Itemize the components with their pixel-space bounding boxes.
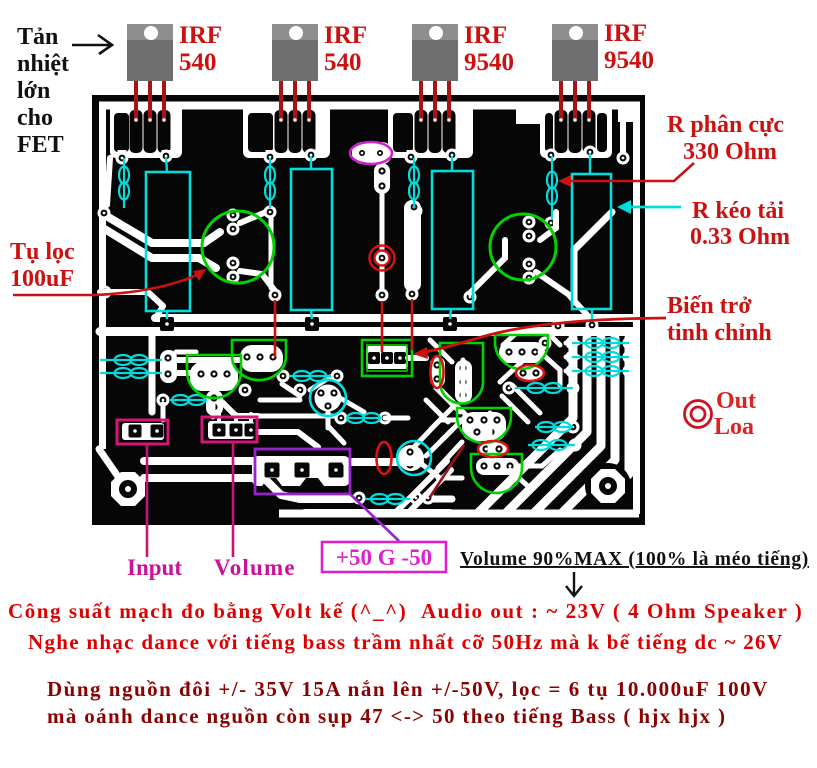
svg-text:IRF: IRF: [179, 22, 222, 49]
pad border via 2: [99, 286, 112, 299]
wire: cluster diag 2: [442, 416, 466, 440]
pin slot for leg at x=150: [144, 110, 157, 153]
wire: maze low link: [419, 462, 462, 478]
svg-text:R phân cực: R phân cực: [667, 112, 784, 138]
wire W2 (red jumper line): [381, 301, 384, 352]
wire: row y352: [176, 350, 196, 355]
wire: maze t4: [500, 356, 528, 382]
pad x3: [294, 384, 307, 397]
pad R3 bus: [443, 317, 457, 331]
pad bar bottom: [406, 288, 419, 301]
wire: stub to pad G2b: [307, 150, 316, 155]
svg-text:Công suất mạch đo bằng Volt kế: Công suất mạch đo bằng Volt kế (^_^) Aud…: [8, 599, 803, 623]
wire: trio feed 2: [566, 355, 578, 360]
connector input footprint: [122, 423, 164, 440]
pad ctr3: [376, 289, 389, 302]
wire: cyan stub R1 top: [166, 157, 167, 172]
transistor Q2 IRF540 body: [272, 24, 318, 81]
pad C1-4: [227, 271, 240, 284]
wire: output trace 2: [506, 338, 587, 513]
pad bt2: [410, 492, 423, 505]
wire: maze t1: [461, 360, 466, 400]
svg-text:mà oánh dance nguồn còn sụp 47: mà oánh dance nguồn còn sụp 47 <-> 50 th…: [47, 704, 726, 728]
pad IN-2: [151, 425, 164, 438]
wire: volume90 down arrow: [566, 572, 582, 596]
wire: maze low 2: [510, 470, 530, 488]
pin slot for leg at x=281: [275, 110, 288, 153]
pin slot for leg at x=164: [158, 110, 171, 153]
pad z2: [374, 147, 386, 159]
wire: volume stub 1: [217, 414, 221, 424]
jumper JL3 (cyan link): [409, 158, 419, 208]
bias via target (red rings): [370, 246, 395, 271]
pad J2 bot: [269, 289, 282, 302]
mount hole bottom-right: [585, 463, 631, 509]
wire: board outline ground trace right: [633, 102, 640, 514]
wire: stub to bus start: [157, 306, 163, 316]
pad R4 bus: [586, 319, 599, 332]
ground pour island over Q1 pins: [110, 102, 182, 158]
transistor D3 (green outline): [495, 335, 548, 369]
pad trio-r354: [623, 351, 636, 364]
pad G2a: [264, 151, 277, 164]
svg-text:Volume 90%MAX (100% là méo tiế: Volume 90%MAX (100% là méo tiếng): [460, 549, 809, 570]
wire: bottom mid rail: [305, 509, 450, 517]
footprint Q11: [476, 458, 519, 475]
wire: power box leader (purple): [350, 494, 399, 541]
jumper JH4 (cyan link): [289, 371, 331, 381]
wire: trio feed 3: [566, 369, 578, 374]
power label box: [322, 542, 446, 572]
pad jd-l: [335, 412, 348, 425]
wire: left border to mount hole: [99, 449, 119, 478]
wire: Tu loc leader arrow (red): [13, 269, 206, 295]
wire: output trace 4: [562, 338, 615, 513]
wire: cyan stub R2 top: [310, 156, 312, 169]
svg-text:lớn: lớn: [17, 78, 50, 104]
node: zener pads (magenta ellipse): [350, 142, 392, 164]
pad C1-3: [227, 257, 240, 270]
pin slot for leg at x=435: [429, 110, 442, 153]
transistor Q1 IRF540 body: [127, 24, 173, 81]
wire: trio feed 1: [566, 341, 578, 346]
wire: maze t2: [488, 413, 493, 470]
pad J3 bottom (redraw): [408, 201, 421, 214]
wire: bottom-left rail 2: [144, 478, 352, 499]
pad trio-r340: [623, 337, 636, 350]
pad jd-r: [379, 412, 392, 425]
jumper JH7 (cyan link): [572, 352, 629, 362]
capacitor C2 100uF (green circle): [490, 214, 556, 280]
wire W3 (red jumper line): [411, 299, 414, 350]
wire: under D1: [222, 402, 258, 416]
svg-text:0.33 Ohm: 0.33 Ohm: [690, 224, 790, 250]
footprint RJ left: [160, 350, 177, 383]
pad jc-l: [277, 370, 290, 383]
PCB board (black copper-clad area): [92, 95, 645, 525]
mount hole bottom-right (redraw over traces): [585, 463, 631, 509]
svg-text:9540: 9540: [464, 49, 514, 76]
wire: link to C ring: [385, 416, 408, 421]
wire: maze d2: [426, 400, 448, 422]
wire: cluster diag 3: [426, 430, 452, 456]
jumper JH8 (cyan link): [572, 366, 629, 376]
wire: cyan stub R3 bot: [450, 309, 451, 319]
wire: top jumper pour between Q3 and Q4: [516, 102, 542, 124]
pad C2-2: [523, 230, 536, 243]
wire: input stub 1: [161, 404, 166, 420]
pin slot for leg at x=449: [443, 110, 456, 153]
wire: R phan cuc leader arrow (red): [558, 163, 694, 187]
svg-text:nhiệt: nhiệt: [17, 51, 69, 77]
wire: R4 under diagonal: [574, 212, 612, 302]
pad C2-3: [523, 258, 536, 271]
wire: stub to pad G4a: [547, 150, 556, 155]
wire: connector out right: [346, 458, 420, 466]
wire: C1 to jumper: [240, 212, 266, 223]
jumper JH10 (cyan link): [535, 422, 573, 432]
pad mid via: [464, 291, 477, 304]
wire: C1 to R2 area: [240, 271, 275, 291]
svg-text:FET: FET: [17, 132, 64, 158]
svg-text:IRF: IRF: [464, 22, 507, 49]
connector J-power footprint: [252, 456, 350, 486]
transistor D2 (green outline): [232, 340, 286, 380]
pad ch2-r: [567, 421, 580, 434]
wire: cluster diag 1: [431, 405, 455, 429]
resistor R1 0.33 Ohm (cyan box): [146, 172, 190, 311]
transistor Q3 legs: [419, 80, 451, 122]
pad bt3: [422, 492, 435, 505]
wire: board outline ground trace top: [99, 102, 640, 110]
footprint zener pads blob: [352, 142, 392, 164]
wire: cyan stub R1 bot: [166, 311, 168, 319]
jumper JL4 R phan cuc (cyan link): [547, 156, 557, 220]
wire: input stub 2: [211, 404, 216, 417]
wire: top-right inner trace: [620, 106, 626, 152]
pad C2-1: [523, 216, 536, 229]
wire: volume stub 3: [249, 414, 253, 424]
footprint Q6: [240, 345, 283, 372]
wire: maze t8: [516, 450, 560, 466]
pad bias via: [376, 252, 389, 265]
svg-text:Nghe nhạc dance với tiếng bass: Nghe nhạc dance với tiếng bass trầm nhất…: [28, 630, 783, 654]
wire: row trace y360: [172, 357, 240, 363]
ground pour island over Q4 pins: [540, 102, 612, 158]
pin slot for leg at x=575: [569, 110, 582, 153]
footprint R-f: [479, 441, 507, 457]
wire: stub to pad G1b: [162, 150, 171, 156]
jumper JH3 (cyan link): [170, 395, 207, 405]
wire: stub to pad G2a: [266, 150, 275, 157]
wire: C2 lower out: [536, 272, 590, 318]
out loa pad symbol (red rings): [685, 401, 712, 428]
svg-text:Dùng nguồn đôi +/- 35V 15A nắn: Dùng nguồn đôi +/- 35V 15A nắn lên +/-50…: [47, 677, 769, 701]
wire: row trace y373: [172, 370, 196, 376]
pad bt1: [353, 492, 366, 505]
wire: Q7 to connector: [328, 426, 344, 443]
wire: mid row y400: [260, 398, 300, 403]
transistor Q1 legs: [134, 80, 166, 122]
pad ch-r: [567, 382, 580, 395]
jumper JH5 (cyan link): [347, 413, 380, 423]
pad trio-l354: [566, 351, 579, 364]
wire: R keo tai leader arrow (cyan): [617, 200, 681, 214]
footprint RJ mid: [206, 390, 223, 416]
pad ctr2: [376, 180, 389, 193]
wire: output trace 3: [534, 338, 601, 513]
transistor D4 (green tall outline): [440, 343, 483, 404]
trimmer VR1 footprint: [366, 346, 408, 369]
transistor Q7 (cyan circle): [310, 380, 346, 416]
pad x1: [552, 320, 565, 333]
mount hole bottom-left: [111, 472, 145, 506]
wire: jc to x3: [282, 384, 300, 396]
wire: center column: [380, 163, 385, 250]
svg-text:cho: cho: [17, 105, 53, 131]
wire: Q4 gate drop: [540, 212, 556, 240]
pad trio-l369: [566, 365, 579, 378]
footprint Q10: [462, 412, 506, 441]
pad G4a: [545, 149, 558, 162]
wire: cyan stub R2 bot: [311, 310, 312, 319]
wire: feed diagonal lower: [103, 228, 216, 268]
transistor Q2 legs: [279, 80, 311, 122]
jumper JH2 (cyan link): [100, 368, 162, 378]
pad J3 bot: [410, 205, 423, 218]
pin slot for leg at x=561: [555, 110, 568, 153]
wire: jumper column J2: [269, 218, 274, 288]
pad P+50: [265, 463, 280, 478]
ground pour island over Q3 pins: [388, 102, 473, 158]
jumper JL1 (cyan link): [119, 158, 129, 208]
pad z1: [356, 147, 368, 159]
wire: top-right corner pour: [618, 102, 638, 122]
svg-text:IRF: IRF: [604, 20, 647, 47]
connector volume footprint: [208, 421, 254, 439]
footprint Q9: [455, 360, 472, 403]
wire: volume stub 2: [234, 414, 238, 424]
svg-text:Input: Input: [127, 555, 182, 580]
svg-text:Biến trở: Biến trở: [667, 293, 752, 319]
svg-text:9540: 9540: [604, 47, 654, 74]
svg-text:100uF: 100uF: [10, 266, 74, 292]
transistor Q3 IRF9540 body: [412, 24, 458, 81]
wire: stub to pad G3a: [407, 150, 416, 157]
resistor RE1 (red ellipse mark): [431, 356, 444, 388]
pad ch-l: [503, 382, 516, 395]
wire: low row: [438, 476, 462, 481]
pad J4 bot: [545, 217, 558, 230]
svg-text:Out: Out: [716, 388, 756, 414]
wire: bottom-left rail 1: [144, 457, 258, 465]
wire: heatsink arrow: [72, 35, 112, 54]
pad right inner: [617, 152, 630, 165]
resistor R4 0.33 Ohm (cyan box): [572, 174, 611, 309]
pad trio-r369: [623, 365, 636, 378]
pin slot for leg at x=421: [415, 110, 428, 153]
wire: maze t6: [503, 330, 520, 345]
ground pour island over Q2 pins: [243, 102, 330, 158]
pad border via: [98, 207, 111, 220]
resistor RE2 (red ellipse mark): [516, 365, 544, 381]
pad VR1-2: [381, 352, 393, 364]
jumper JH11 (cyan link): [528, 440, 575, 450]
pad G3a: [405, 151, 418, 164]
pin slot for leg at x=295: [289, 110, 302, 153]
wire: stub to pad G3b: [448, 150, 457, 155]
transistor D5 (green outline): [457, 408, 511, 443]
jumper JH12 (cyan link): [365, 494, 410, 504]
wire: output trace 5: [613, 338, 629, 490]
svg-text:IRF: IRF: [324, 22, 367, 49]
transistor Q12 (cyan circle): [397, 441, 431, 475]
wire: cyan stub R4 bot: [591, 309, 593, 321]
wire: maze d1: [436, 388, 460, 412]
wire: maze t5: [415, 420, 462, 446]
wire: Bien tro leader arrow (red): [413, 318, 666, 359]
wire: feed diagonal upper: [103, 214, 220, 243]
wire: maze ne 1: [545, 330, 560, 345]
pad C2-4: [523, 272, 536, 285]
transistor Q4 IRF9540 body: [552, 24, 598, 81]
svg-text:540: 540: [179, 49, 217, 76]
wire: wrap stripe 1: [396, 461, 447, 512]
wire: volume leader (pink): [232, 442, 235, 557]
pad G4b: [584, 146, 597, 159]
transistor Q4 legs: [559, 80, 591, 122]
svg-text:540: 540: [324, 49, 362, 76]
wire: maze t3: [441, 390, 466, 415]
svg-text:+50 G -50: +50 G -50: [336, 545, 432, 570]
pad x4: [239, 384, 252, 397]
pad VOL-3: [245, 424, 258, 437]
pad R1 bus: [160, 317, 174, 331]
pad PG: [295, 463, 310, 478]
connector power (purple box): [255, 449, 350, 494]
wire: VR1 out right: [408, 355, 426, 361]
footprint Q12: [398, 445, 424, 471]
pad G2b: [305, 149, 318, 162]
wire: stub to pad G4b: [586, 150, 595, 152]
resistor RE3 (red ellipse mark): [377, 442, 392, 474]
resistor R3 0.33 Ohm (cyan box): [432, 171, 473, 309]
footprint Q7: [315, 385, 342, 412]
pad ctr1: [376, 166, 389, 179]
wire: volume to connector: [256, 432, 318, 447]
svg-text:Volume: Volume: [214, 555, 296, 580]
pad trio-l340: [566, 337, 579, 350]
pad G1b: [160, 150, 173, 163]
wire: input leader (pink): [146, 444, 149, 557]
pad P-50: [329, 463, 344, 478]
footprint R-b: [516, 365, 544, 381]
wire: cyan stub R4 top: [589, 153, 591, 174]
pin slot for leg at x=309: [303, 110, 316, 153]
wire: maze d4: [502, 396, 528, 422]
wire: left lower stub: [100, 292, 163, 306]
wire: wrap stripe 2: [409, 470, 451, 512]
wire: output trace 1: [478, 338, 573, 513]
footprint Q5: [190, 362, 238, 391]
footprint center pair: [374, 163, 390, 194]
pad VOL-1: [213, 424, 226, 437]
transistor D6 (green outline): [471, 454, 522, 493]
pin slot for leg at x=589: [583, 110, 596, 153]
svg-text:R kéo tải: R kéo tải: [692, 198, 784, 224]
pad R2 bus: [305, 317, 319, 331]
wire W4 (dark red diagonal): [430, 445, 464, 497]
pad VR1-1: [368, 352, 380, 364]
transistor D1 (green outline): [187, 355, 241, 398]
wire: mid diagonal up: [470, 240, 505, 293]
jumper JH1 (cyan link): [100, 355, 162, 365]
trimmer VR1 (green box): [362, 340, 412, 376]
wire: G1 hook to border via: [107, 158, 110, 205]
pad jr-l: [157, 394, 170, 407]
footprint Q8: [499, 342, 545, 363]
pad ch3-r: [569, 439, 582, 452]
pad J2 top: [264, 206, 277, 219]
wire: bottom mid stub: [428, 496, 452, 503]
resistor RE4 (red ellipse mark): [478, 441, 508, 457]
pad C1-1: [227, 209, 240, 222]
wire: cluster diag 4: [438, 442, 462, 468]
pad x2: [539, 337, 552, 350]
wire: power bus B: [100, 327, 633, 336]
resistor R2 0.33 Ohm (cyan box): [291, 169, 332, 310]
pad jc-r: [331, 370, 344, 383]
wire: stub to pad G1a: [118, 150, 127, 158]
pin slot for leg at x=136: [130, 110, 143, 153]
capacitor C1 100uF (green circle): [202, 211, 274, 283]
wire: board outline ground trace left: [99, 102, 106, 449]
jumper JH6 (cyan link): [572, 338, 629, 348]
wire: center fat supply bar: [404, 200, 421, 292]
pad C1-2: [227, 223, 240, 236]
wire: maze ne 2: [430, 340, 452, 362]
wire: Q7 up link: [310, 377, 330, 390]
connector volume (pink box): [202, 417, 257, 442]
footprint R-e: [430, 357, 445, 387]
svg-text:330 Ohm: 330 Ohm: [683, 139, 777, 165]
jumper JH9 (cyan link): [515, 383, 573, 393]
wire W1 (red jumper line): [274, 300, 277, 357]
wire: Q7 down stub: [326, 412, 331, 428]
wire: power bus A: [155, 314, 633, 322]
wire: maze d3: [512, 385, 540, 413]
pad IN-1: [129, 425, 142, 438]
svg-text:tinh chỉnh: tinh chỉnh: [667, 320, 772, 346]
svg-text:Loa: Loa: [714, 414, 754, 440]
wire: maze t7: [540, 352, 560, 385]
wire: row to jd pad: [258, 414, 335, 419]
pad G3b: [446, 149, 459, 162]
wire: center column lower: [380, 264, 385, 296]
wire: cyan stub R3 top: [451, 156, 453, 171]
pad G1a: [116, 152, 129, 165]
wire: vertical to input section: [149, 336, 156, 412]
svg-text:Tụ lọc: Tụ lọc: [10, 239, 75, 265]
wire: board outline ground trace bottom-right: [279, 510, 639, 518]
jumper JL2 (cyan link): [265, 158, 275, 208]
pad VR1-3: [394, 352, 406, 364]
connector input (pink box): [117, 420, 168, 444]
svg-text:Tản: Tản: [17, 24, 58, 50]
pad VOL-2: [230, 424, 243, 437]
wire: Q7 out: [340, 398, 364, 412]
